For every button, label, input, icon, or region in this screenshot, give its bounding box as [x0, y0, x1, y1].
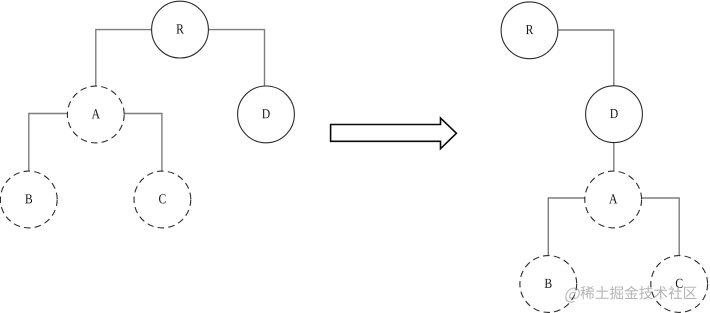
arrow transform — [331, 118, 457, 149]
node R-R — [501, 2, 558, 59]
node L-A — [67, 86, 124, 143]
node L-R — [152, 1, 209, 58]
wire R A-C — [642, 198, 680, 256]
node L-C — [134, 171, 191, 228]
node L-D — [238, 86, 295, 143]
node R-B — [520, 256, 577, 313]
wire L A-C — [124, 114, 162, 172]
wire R A-B — [548, 198, 585, 256]
wire L R-A — [96, 30, 152, 87]
watermark — [564, 286, 696, 303]
node R-A — [585, 171, 642, 228]
wire R D-A — [613, 143, 615, 172]
node R-C — [651, 256, 708, 313]
node R-D — [586, 86, 643, 143]
node L-B — [0, 171, 57, 228]
wire L R-D — [208, 30, 264, 86]
wire L A-B — [29, 114, 68, 172]
wire R R-D — [558, 30, 614, 86]
